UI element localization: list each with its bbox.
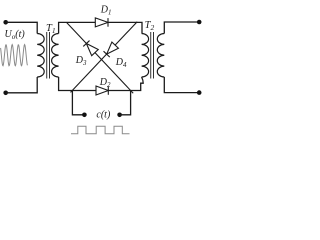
node: output top terminal bbox=[197, 20, 202, 25]
svg-text:Uo(t): Uo(t) bbox=[5, 29, 26, 41]
signal source sine wave bbox=[1, 45, 28, 66]
transformer T1 primary winding bbox=[37, 34, 44, 78]
wire: T2 secondary top to output top terminal bbox=[164, 22, 199, 34]
transformer T2 core bbox=[150, 32, 152, 79]
svg-text:D1: D1 bbox=[100, 5, 112, 17]
svg-text:D2: D2 bbox=[99, 77, 111, 89]
wire: node C down to carrier left terminal bbox=[72, 91, 84, 115]
node: output bottom terminal bbox=[197, 90, 202, 95]
node: input top-left terminal bbox=[3, 20, 8, 25]
wire: diagonal node C to node B bbox=[71, 22, 138, 93]
transformer T1 core bbox=[46, 32, 48, 79]
wire: T2 secondary bottom to output bottom terminal bbox=[164, 77, 199, 93]
diode D3 bbox=[83, 41, 98, 56]
svg-text:c(t): c(t) bbox=[96, 109, 111, 120]
node: carrier right terminal bbox=[117, 113, 122, 118]
node: input bottom-left terminal bbox=[3, 91, 8, 96]
transformer T2 primary winding bbox=[142, 34, 149, 78]
transformer T1 secondary winding bbox=[52, 34, 59, 78]
transformer T2 secondary winding bbox=[157, 34, 164, 78]
svg-text:T1: T1 bbox=[46, 23, 56, 35]
wire: diagonal node A to node D bbox=[67, 22, 134, 93]
diode D2 bbox=[96, 86, 108, 95]
diode D4 bbox=[104, 42, 119, 57]
node: carrier left terminal bbox=[82, 113, 87, 118]
svg-text:T2: T2 bbox=[145, 20, 155, 32]
wire: input bottom terminal to T1 primary bottom bbox=[6, 77, 38, 93]
svg-text:D3: D3 bbox=[75, 55, 87, 67]
wire: carrier right terminal up to node D bbox=[120, 91, 131, 115]
wire: bottom rail from T1 secondary to T2 primary bbox=[59, 77, 144, 91]
wire: input top terminal to T1 primary top bbox=[6, 22, 38, 33]
carrier square wave symbol bbox=[71, 126, 130, 134]
svg-text:D4: D4 bbox=[115, 57, 127, 69]
wire: top rail from T1 secondary to T2 primary bbox=[59, 22, 142, 33]
diode D1 bbox=[95, 18, 108, 27]
